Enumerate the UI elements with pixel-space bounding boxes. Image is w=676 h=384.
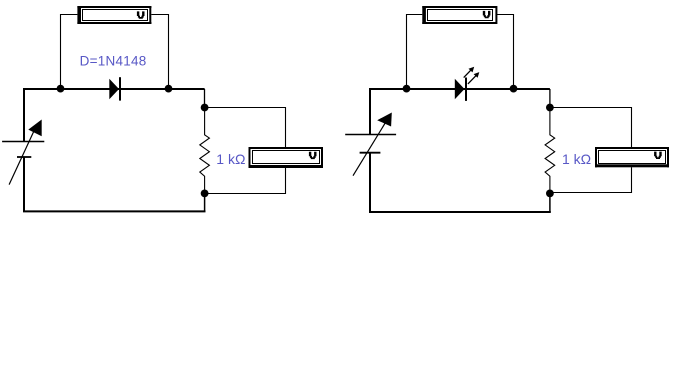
voltmeter V2 (across R1): body bbox=[249, 147, 324, 168]
variable DC source VS1: top plate bbox=[2, 141, 44, 143]
svg-text:D=1N4148: D=1N4148 bbox=[80, 53, 147, 68]
wire: left circuit top-right corner drop to resistor node bbox=[204, 89, 206, 105]
wire: right circuit left side below source + bottom rail bbox=[370, 153, 551, 212]
wire: right circuit left side down to source top plate bbox=[369, 88, 371, 135]
junction dot: resistor R2 top node bbox=[546, 104, 554, 112]
junction dot: LED cathode node bbox=[510, 85, 518, 93]
wire: V1 right lead bbox=[151, 15, 168, 87]
LED D2: emission arrow 1 shaft bbox=[464, 68, 473, 77]
wire: V3 right lead bbox=[497, 15, 514, 87]
diode D 1N4148: anode triangle bbox=[109, 79, 119, 100]
junction dot: resistor R2 bottom node bbox=[546, 190, 554, 198]
LED D2: emission arrow 2 head bbox=[474, 72, 480, 78]
resistor R2 1 kOhm (zigzag) bbox=[545, 108, 555, 194]
svg-text:1 kΩ: 1 kΩ bbox=[562, 151, 591, 167]
junction dot: diode anode node bbox=[57, 85, 65, 93]
variable DC source VS1: arrowhead bbox=[28, 120, 41, 137]
junction dot: resistor R1 top node bbox=[201, 104, 209, 112]
wire: left circuit top rail bbox=[23, 88, 205, 90]
wire: V4 bottom lead bbox=[552, 167, 632, 192]
wire: right circuit top-right corner drop to resistor node bbox=[549, 89, 551, 105]
variable DC source VS2: arrowhead bbox=[377, 113, 392, 127]
wire: V2 bottom lead bbox=[207, 168, 286, 194]
LED D2: cathode bar bbox=[465, 78, 467, 101]
voltmeter V1 (across diode): body bbox=[77, 6, 151, 24]
wire: right circuit top rail bbox=[369, 88, 550, 90]
junction dot: resistor R1 bottom node bbox=[201, 190, 209, 198]
LED D2: emission arrow 2 shaft bbox=[468, 74, 478, 84]
wire: V4 top lead bbox=[552, 108, 632, 148]
wire: V2 top lead bbox=[207, 108, 286, 148]
resistor R1 1 kOhm (zigzag) bbox=[200, 108, 210, 194]
variable DC source VS1: bottom plate bbox=[17, 156, 31, 158]
junction dot: LED anode node bbox=[403, 85, 411, 93]
voltmeter V3 (across LED): body bbox=[422, 6, 497, 24]
wire: right circuit bottom riser to resistor bottom node bbox=[549, 193, 551, 212]
diode D 1N4148: cathode bar bbox=[119, 77, 121, 100]
LED D2: emission arrow 1 head bbox=[469, 67, 475, 73]
junction dot: diode cathode node bbox=[165, 85, 173, 93]
voltmeter V4 (across R2): body bbox=[595, 147, 669, 167]
wire: left circuit bottom riser to resistor bottom node bbox=[204, 193, 206, 211]
variable DC source VS1: variability arrow shaft bbox=[9, 126, 36, 185]
svg-text:1 kΩ: 1 kΩ bbox=[216, 151, 245, 167]
wire: V3 left lead bbox=[407, 15, 423, 87]
variable DC source VS2: bottom plate bbox=[360, 152, 381, 154]
LED D2: anode triangle bbox=[455, 79, 465, 100]
wire: left circuit left side below source + bottom rail bbox=[24, 157, 206, 212]
variable DC source VS2: top plate bbox=[345, 134, 396, 136]
wire: left circuit left side down to source top plate bbox=[23, 88, 25, 142]
variable DC source VS2: variability arrow shaft bbox=[353, 123, 386, 176]
wire: V1 left lead bbox=[61, 15, 78, 87]
